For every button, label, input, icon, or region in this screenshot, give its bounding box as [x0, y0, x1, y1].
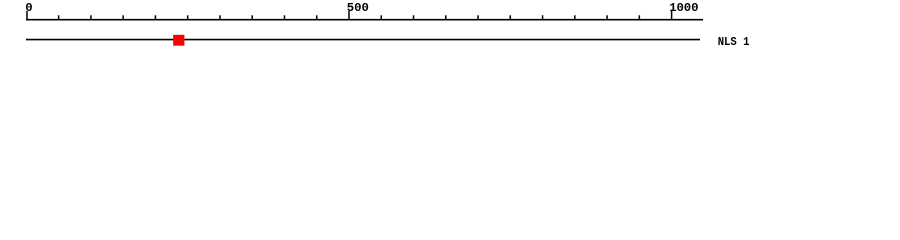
- ruler axis: [26, 19, 703, 21]
- svg-text:1000: 1000: [669, 1, 698, 15]
- minor ticks 550-950: [381, 15, 639, 20]
- minor ticks 50-450: [59, 15, 317, 20]
- major tick 0: [26, 11, 28, 20]
- NLS motif marker (red box): [173, 35, 184, 46]
- major tick 1000: [671, 11, 673, 20]
- svg-text:0: 0: [25, 1, 32, 15]
- svg-text:500: 500: [347, 1, 369, 15]
- protein backbone line: [26, 39, 700, 41]
- major tick 500: [348, 11, 350, 20]
- svg-text:NLS 1: NLS 1: [718, 35, 750, 49]
